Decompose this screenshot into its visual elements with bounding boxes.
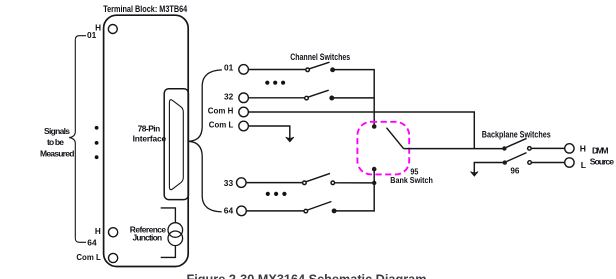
svg-text:Bank Switch: Bank Switch bbox=[390, 175, 433, 185]
switch CH64 blade bbox=[308, 202, 332, 211]
wire: ground to backplane switch 96 bbox=[474, 163, 505, 174]
78-pin connector outer body bbox=[164, 89, 188, 200]
ellipsis dots channels 01..32 bbox=[265, 81, 285, 85]
ground arrow (Com L) bbox=[286, 137, 294, 142]
svg-text:64: 64 bbox=[87, 237, 97, 247]
svg-text:to be: to be bbox=[47, 137, 64, 147]
svg-text:Com L: Com L bbox=[76, 252, 100, 262]
svg-text:Interface: Interface bbox=[133, 134, 167, 144]
wire: switch 96 to DMM L bbox=[531, 162, 564, 164]
DMM terminal L bbox=[565, 158, 574, 167]
label Reference Junction bbox=[130, 224, 167, 242]
junction node (33/64 bus) bbox=[372, 181, 376, 185]
wire: terminal 01 to switch 01 bbox=[248, 69, 305, 71]
wire: switch 01 to bus bbox=[334, 69, 374, 71]
wire: Com L to ground arrow bbox=[248, 126, 289, 139]
terminal circle CH64-H (bottom left) bbox=[109, 228, 118, 237]
svg-text:33: 33 bbox=[224, 178, 234, 188]
switch CH64 contact left bbox=[304, 209, 308, 213]
terminal circle 32 bbox=[239, 93, 249, 103]
wire: switch 64 up to junction bbox=[336, 183, 374, 211]
backplane switch 95 contact right bbox=[528, 147, 532, 151]
78-pin connector D-sub inner bbox=[169, 100, 183, 190]
backplane switch 95 blade bbox=[506, 138, 526, 147]
backplane switch 96 contact right bbox=[528, 161, 532, 165]
backplane switch 96 node left bbox=[503, 160, 507, 164]
svg-text:01: 01 bbox=[224, 63, 234, 73]
wire: 01 label to signals bracket bbox=[75, 36, 86, 40]
backplane switch 96 blade bbox=[507, 153, 527, 162]
svg-text:Figure 2-30 MX3164 Schematic D: Figure 2-30 MX3164 Schematic Diagram bbox=[187, 273, 427, 279]
terminal circle 33 bbox=[237, 178, 247, 188]
label DMM Source bbox=[590, 145, 614, 166]
bank switch blade bbox=[387, 128, 404, 149]
bus wire: channel switches to bank switch bbox=[373, 70, 375, 127]
svg-text:Terminal Block: M3TB64: Terminal Block: M3TB64 bbox=[103, 4, 187, 14]
svg-text:L: L bbox=[581, 160, 586, 170]
svg-text:H: H bbox=[95, 227, 101, 236]
label 78-Pin Interface bbox=[133, 124, 167, 144]
svg-text:Signals: Signals bbox=[44, 126, 70, 136]
switch CH01 contact right (node) bbox=[331, 68, 335, 72]
terminal circle 64 bbox=[237, 206, 247, 216]
switch CH33 blade bbox=[306, 173, 330, 181]
svg-text:Junction: Junction bbox=[133, 232, 163, 242]
svg-text:78-Pin: 78-Pin bbox=[138, 124, 161, 134]
label Signals to be Measured bbox=[40, 126, 74, 159]
reference junction bracket bbox=[161, 208, 176, 258]
svg-text:01: 01 bbox=[87, 30, 97, 40]
wire: terminal 64 to switch 64 bbox=[246, 210, 304, 212]
ellipsis dots (signals continue) bbox=[95, 126, 99, 159]
switch CH01 contact left bbox=[306, 68, 310, 72]
terminal circle CH01-H (top left) bbox=[108, 25, 117, 34]
switch CH64 contact right (node) bbox=[332, 209, 336, 213]
svg-text:Com H: Com H bbox=[208, 106, 234, 116]
terminal circle Com H bbox=[239, 107, 249, 117]
svg-text:Com L: Com L bbox=[209, 120, 234, 130]
switch CH33 contact right bbox=[331, 181, 335, 185]
switch CH32 blade bbox=[308, 90, 329, 97]
wire: switch 95 to DMM H bbox=[531, 147, 565, 149]
svg-text:DMM: DMM bbox=[592, 145, 609, 155]
terminal circle Com L bbox=[239, 121, 249, 131]
cable brace (curly) bbox=[189, 70, 222, 212]
bank switch top node bbox=[372, 124, 377, 129]
svg-text:Backplane Switches: Backplane Switches bbox=[482, 130, 551, 140]
bank switch enclosure (magenta dashed) bbox=[357, 122, 409, 175]
wire: terminal 32 to switch 32 bbox=[248, 97, 304, 99]
wire: Com H to backplane bbox=[248, 112, 474, 149]
switch CH32 contact right (node) bbox=[330, 96, 334, 100]
switch CH33 contact left bbox=[303, 181, 307, 185]
svg-text:Measured: Measured bbox=[40, 149, 74, 159]
wire: signals bracket to 64 label bbox=[75, 238, 86, 242]
svg-text:64: 64 bbox=[224, 205, 234, 215]
svg-text:96: 96 bbox=[510, 165, 519, 175]
terminal block outline bbox=[104, 15, 189, 266]
wire: terminal 33 to switch 33 bbox=[246, 182, 303, 184]
terminal circle 01 bbox=[239, 65, 249, 75]
signals bracket (curly) bbox=[69, 40, 75, 239]
ground arrow (backplane) bbox=[471, 172, 479, 177]
switch CH01 blade bbox=[309, 62, 329, 69]
thermocouple symbol (two circles) bbox=[168, 223, 183, 238]
wire: bank switch bottom to junction bbox=[373, 169, 375, 183]
ellipsis dots channels 33..64 bbox=[266, 192, 287, 196]
terminal circle Com L (bottom left) bbox=[109, 253, 118, 262]
svg-text:H: H bbox=[580, 144, 586, 154]
svg-text:Channel Switches: Channel Switches bbox=[290, 52, 350, 62]
switch CH32 contact left bbox=[305, 96, 309, 100]
bank switch bottom node bbox=[372, 167, 377, 172]
svg-text:32: 32 bbox=[224, 91, 234, 101]
svg-text:Source: Source bbox=[590, 156, 614, 166]
DMM terminal H bbox=[565, 144, 574, 153]
wire: bank switch to backplane switch 95 bbox=[404, 148, 503, 150]
wire: switch 32 to bus bbox=[334, 97, 375, 99]
backplane switch 95 node left bbox=[502, 146, 506, 150]
wire: switch 33 to junction bbox=[335, 182, 375, 184]
